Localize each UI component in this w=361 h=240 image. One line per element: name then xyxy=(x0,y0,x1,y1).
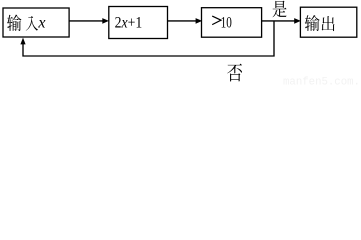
process box B2 (2x+1) xyxy=(109,7,168,39)
svg-text:10: 10 xyxy=(221,13,232,31)
text B4 glyph 输 xyxy=(305,15,320,31)
svg-text:2x+1: 2x+1 xyxy=(115,15,143,32)
wire arrow B2 to B3 xyxy=(168,20,198,22)
process box B4 (output) xyxy=(300,7,356,37)
wire arrow B3 to B4 (yes branch) xyxy=(262,20,296,22)
text B4 glyph 出 xyxy=(322,16,335,31)
decision box B3 (>10) xyxy=(202,8,262,38)
glyph 否 xyxy=(227,64,242,82)
wire arrow B1 to B2 xyxy=(70,20,104,22)
arrowhead up into B1 xyxy=(20,38,25,45)
svg-text:x: x xyxy=(37,15,45,32)
text B1 glyph 入 xyxy=(26,16,38,31)
text B1 glyph 输 xyxy=(7,14,21,31)
glyph 是 xyxy=(273,1,287,18)
text B3 greater-than sign xyxy=(212,16,221,25)
svg-text:manfen5.com.: manfen5.com. xyxy=(283,77,360,88)
wire feedback: down from junction, left along bottom, up into B1 xyxy=(23,21,274,56)
process box B1 (input x) xyxy=(3,8,69,37)
